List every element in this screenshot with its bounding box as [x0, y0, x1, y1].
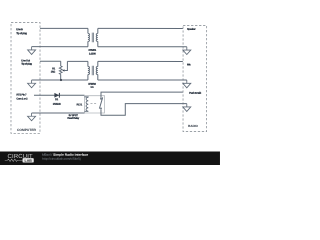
COMPUTER dashed box [11, 22, 40, 133]
relay switch bottom pin wire [101, 104, 187, 116]
ground G6 right [183, 104, 191, 112]
svg-text:1:1000: 1:1000 [89, 51, 96, 55]
wire Line Out [40, 60, 61, 62]
svg-text:http://circuitlab.com/c/5kn5j: http://circuitlab.com/c/5kn5j [42, 157, 81, 161]
svg-text:Tip of plug: Tip of plug [21, 62, 32, 66]
relay switch top pin / PTT wire [101, 92, 183, 98]
svg-text:Push to talk: Push to talk [189, 91, 202, 95]
svg-text:Reed Relay: Reed Relay [67, 116, 79, 120]
wire wiper to xfmr2 [67, 60, 87, 62]
svg-text:Tip of plug: Tip of plug [16, 31, 27, 35]
wire xfmr1 left gnd [32, 46, 88, 48]
ground G2 left [28, 80, 36, 88]
potentiometer R1 [59, 61, 62, 80]
svg-text:RTS Pin 7: RTS Pin 7 [16, 92, 27, 96]
svg-text:Speaker: Speaker [187, 27, 196, 31]
R1 wiper arrow [62, 69, 64, 71]
svg-text:XFMR1: XFMR1 [88, 48, 96, 52]
relay coil bottom wire [32, 112, 85, 114]
relay actuation dashes [90, 102, 97, 104]
wire RTS [34, 94, 84, 96]
relay RLY1 box [84, 96, 104, 113]
ground G5 right [183, 80, 191, 88]
diode D1 [54, 93, 59, 98]
svg-text:RLY1: RLY1 [77, 102, 83, 106]
transformer XFMR2 [88, 61, 98, 80]
svg-text:1N4148: 1N4148 [53, 102, 61, 106]
transformer XFMR1 [88, 28, 98, 46]
svg-text:RADIO: RADIO [188, 124, 199, 128]
relay switch [100, 98, 102, 100]
wire mic [98, 60, 183, 62]
ground G4 right [183, 47, 191, 55]
wire xfmr2 right gnd [98, 79, 187, 81]
svg-text:1kΩ: 1kΩ [51, 69, 55, 73]
svg-text:LAB: LAB [25, 159, 33, 163]
wire speaker [98, 27, 183, 29]
junction dot pot bottom [60, 79, 62, 81]
wire bottom-left net [32, 79, 88, 81]
svg-text:Com 1 or 2: Com 1 or 2 [16, 97, 28, 101]
wire Line In [40, 27, 88, 29]
ground G3 left [28, 113, 36, 121]
RADIO dashed box [183, 26, 207, 132]
wire xfmr1 right gnd [98, 46, 187, 48]
relay coil [84, 97, 88, 111]
ground G1 left [28, 47, 36, 55]
svg-text:COMPUTER: COMPUTER [17, 128, 36, 132]
svg-text:Line In: Line In [16, 27, 23, 31]
footer banner [0, 151, 220, 165]
